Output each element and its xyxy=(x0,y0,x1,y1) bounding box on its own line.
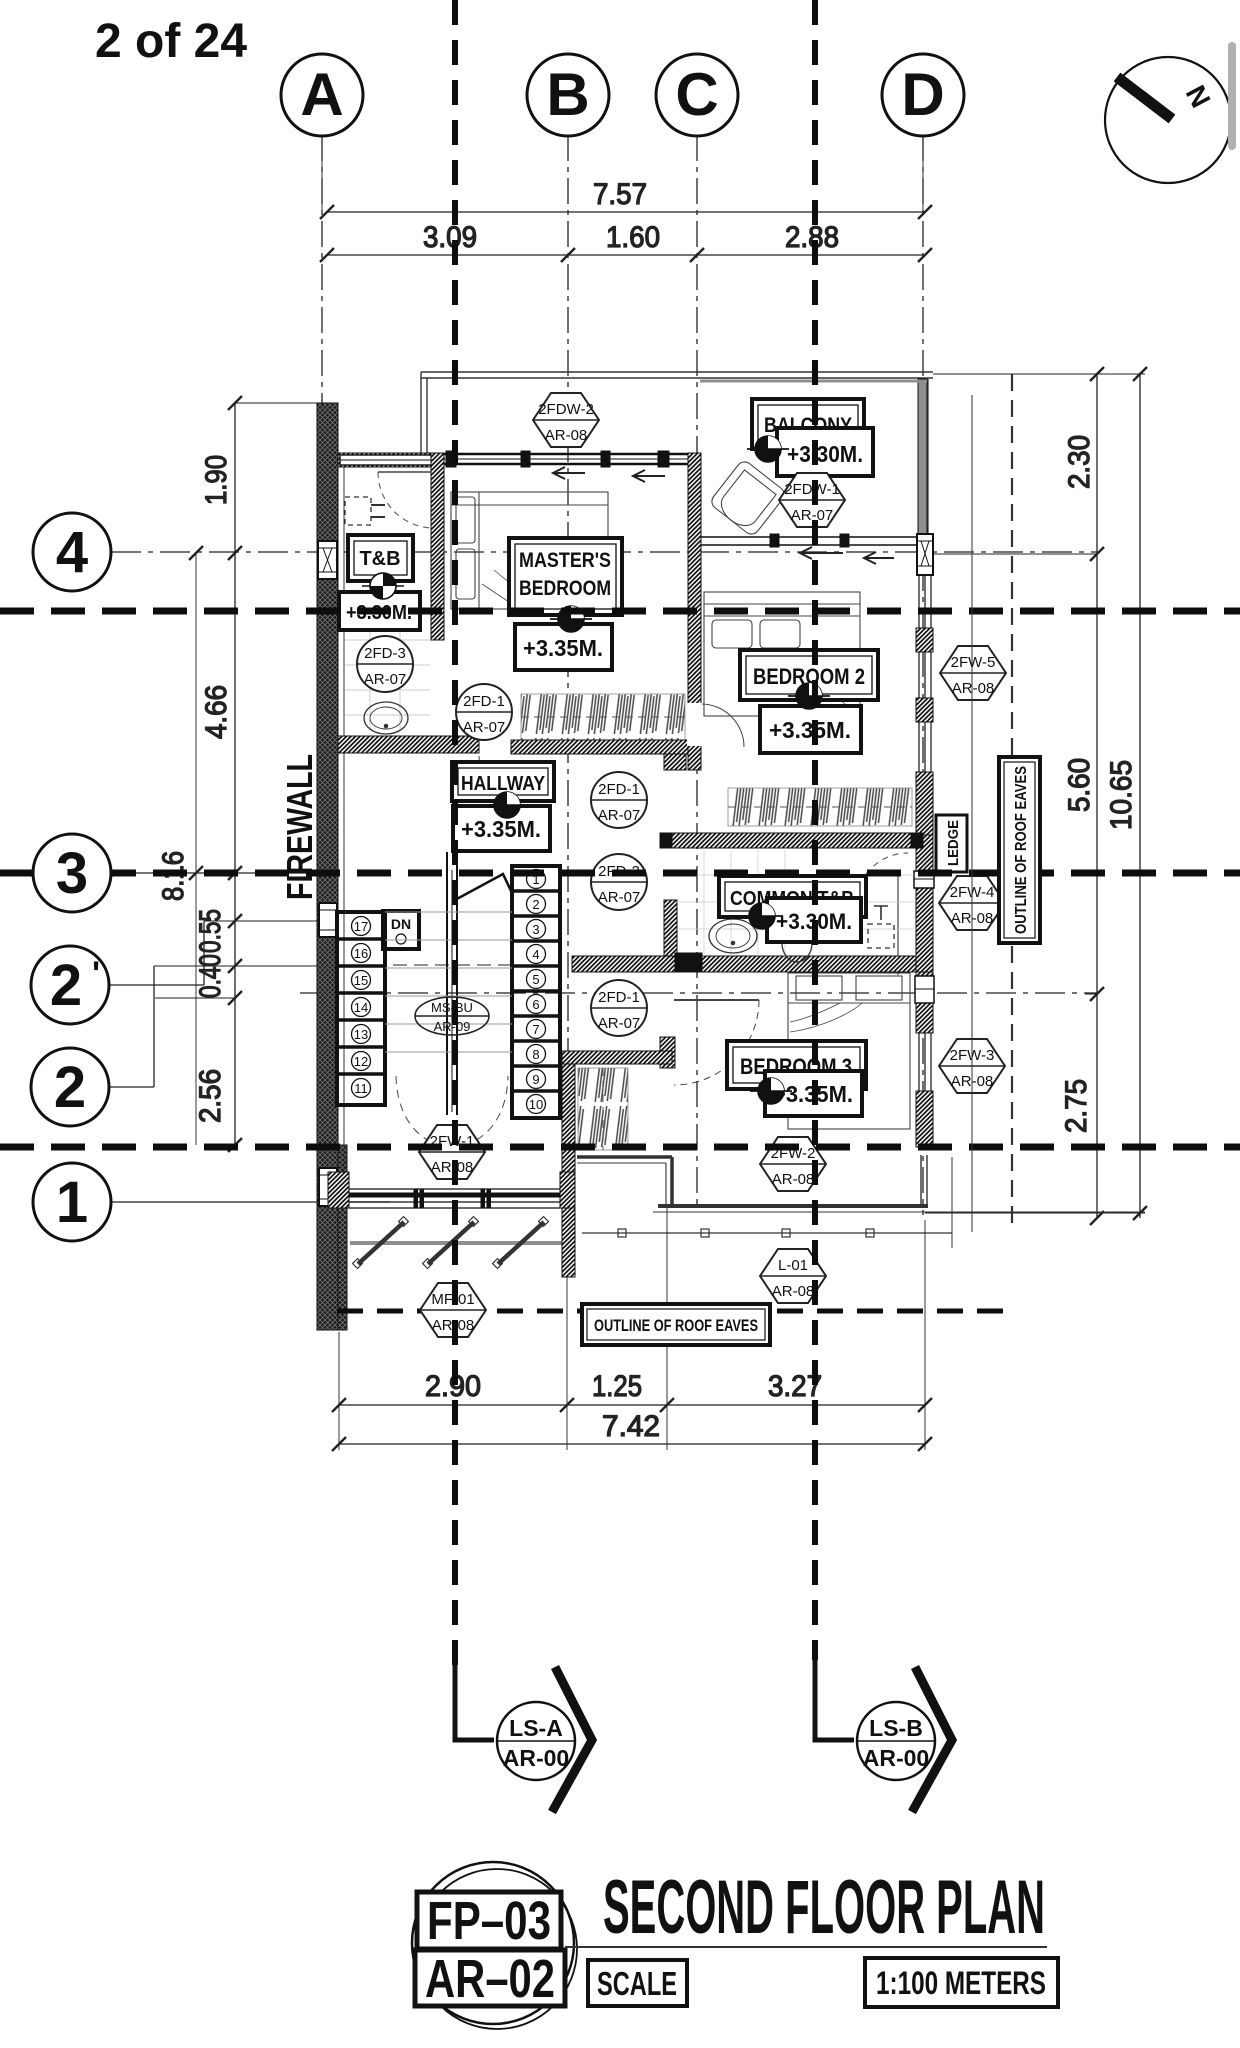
hexagon tag 2FW-2 xyxy=(760,1137,826,1191)
firewall jamb block 1 xyxy=(318,541,337,579)
svg-text:16: 16 xyxy=(354,946,368,961)
svg-text:OUTLINE OF ROOF EAVES: OUTLINE OF ROOF EAVES xyxy=(1013,766,1030,934)
roof eaves outline left xyxy=(421,372,427,455)
svg-text:2FD-1: 2FD-1 xyxy=(463,693,505,710)
stair stringer xyxy=(447,852,457,1115)
svg-text:AR-08: AR-08 xyxy=(952,680,995,697)
svg-text:15: 15 xyxy=(354,973,368,988)
roof eaves outline top xyxy=(421,372,933,378)
section marker LS-A xyxy=(455,1665,592,1812)
svg-text:AR-00: AR-00 xyxy=(503,1745,569,1771)
firewall text xyxy=(279,754,320,900)
tb label box xyxy=(348,535,413,581)
svg-text:MASTER'S: MASTER'S xyxy=(519,549,611,572)
scale box xyxy=(588,1960,687,2006)
svg-text:AR-07: AR-07 xyxy=(364,671,407,688)
tb sink xyxy=(364,702,408,734)
svg-text:2.56: 2.56 xyxy=(194,1069,227,1123)
stair landing lines xyxy=(385,912,512,1052)
svg-text:13: 13 xyxy=(354,1027,368,1042)
svg-text:AR–02: AR–02 xyxy=(425,1949,555,2009)
circle tag 2FD-1 a xyxy=(456,684,512,740)
ellipse tag MS-BU xyxy=(415,997,489,1035)
title sketch circles xyxy=(412,1862,577,2029)
grid row 3 leader xyxy=(111,872,320,874)
bedroom2 bed xyxy=(704,592,860,716)
closet bottom wall xyxy=(562,1051,672,1064)
svg-text:AR-00: AR-00 xyxy=(863,1745,929,1771)
hallway label box xyxy=(452,762,554,801)
common tb door arc xyxy=(856,853,908,975)
level marker balcony xyxy=(747,436,789,462)
svg-text:FP–03: FP–03 xyxy=(427,1891,551,1951)
svg-text:10: 10 xyxy=(529,1097,543,1112)
level marker bedroom2 xyxy=(788,683,830,709)
tb bottom wall xyxy=(338,736,479,753)
svg-text:5: 5 xyxy=(532,972,539,987)
svg-text:2: 2 xyxy=(532,897,539,912)
level marker master xyxy=(550,606,592,632)
common tb shower xyxy=(868,906,894,948)
svg-text:4: 4 xyxy=(532,947,539,962)
bottom dim line 7.42 xyxy=(332,1437,932,1451)
svg-text:A: A xyxy=(300,61,343,128)
svg-text:6: 6 xyxy=(532,997,539,1012)
svg-text:0.55: 0.55 xyxy=(194,909,227,953)
stair DN box xyxy=(383,911,419,949)
svg-text:2.75: 2.75 xyxy=(1060,1079,1093,1133)
svg-text:17: 17 xyxy=(354,919,368,934)
front window wall xyxy=(328,1172,575,1208)
svg-text:2FD-1: 2FD-1 xyxy=(598,781,640,798)
section marker LS-B xyxy=(815,1660,952,1812)
svg-text:C: C xyxy=(675,61,718,128)
property line y1150 xyxy=(0,1144,1240,1151)
svg-text:1.90: 1.90 xyxy=(200,455,233,505)
porch diagonal hatch 2 xyxy=(423,1217,479,1269)
firewall jamb block 2 xyxy=(319,903,337,937)
svg-text:AR-07: AR-07 xyxy=(598,1015,641,1032)
svg-text:+3.30M.: +3.30M. xyxy=(787,441,863,467)
circle tag 2FD-1 c xyxy=(591,980,647,1036)
stair left flight treads 17-11 xyxy=(337,912,385,1105)
level marker hallway xyxy=(486,792,528,818)
level marker hallway xyxy=(486,792,528,818)
master bed xyxy=(451,492,608,609)
svg-text:2FD-1: 2FD-1 xyxy=(598,989,640,1006)
svg-text:7.42: 7.42 xyxy=(602,1410,660,1443)
svg-text:1:100 METERS: 1:100 METERS xyxy=(876,1965,1046,2001)
hallway level box xyxy=(453,806,550,851)
svg-text:DN: DN xyxy=(391,916,411,932)
porch diagonal hatch 3 xyxy=(493,1217,549,1269)
svg-text:+3.35M.: +3.35M. xyxy=(769,717,851,743)
hexagon tag 2FDW-1 xyxy=(779,473,845,527)
grid row 4 line xyxy=(111,551,1097,553)
section line LS-B vertical dashed xyxy=(812,0,818,1660)
svg-text:LEDGE: LEDGE xyxy=(945,820,962,866)
svg-text:8: 8 xyxy=(532,1047,539,1062)
master level box xyxy=(515,624,612,670)
svg-text:LS-A: LS-A xyxy=(509,1715,563,1741)
svg-text:B: B xyxy=(546,61,589,128)
bedroom2 right window wall xyxy=(916,575,933,772)
grid line B vertical xyxy=(567,135,569,1195)
hexagon tag 2FDW-2 xyxy=(533,393,599,447)
master closet hatch xyxy=(521,694,685,740)
common tb left wall xyxy=(664,900,677,972)
svg-text:AR-07: AR-07 xyxy=(598,889,641,906)
svg-text:4.66: 4.66 xyxy=(200,685,233,739)
svg-text:AR-08: AR-08 xyxy=(772,1283,815,1300)
common tb tiles xyxy=(677,848,914,956)
master door arc xyxy=(479,756,511,788)
firewall jamb block 3 xyxy=(319,1168,337,1206)
right wall ledge solid xyxy=(916,772,933,862)
grid line D vertical xyxy=(922,135,924,1215)
balcony bottom wall xyxy=(701,534,933,547)
tb level box xyxy=(339,592,420,630)
circle tag 2FD-2 xyxy=(591,854,647,910)
svg-text:7.57: 7.57 xyxy=(593,178,647,211)
stair up arrow xyxy=(455,874,512,900)
window arrow 3 xyxy=(800,547,843,559)
roof eaves outline right solid xyxy=(971,395,973,1232)
grid bubble 2p xyxy=(31,946,109,1024)
outline of roof eaves bottom box xyxy=(582,1304,770,1345)
window arrow 4 xyxy=(864,552,894,564)
svg-text:FIREWALL: FIREWALL xyxy=(279,754,320,900)
grid bubble 4 xyxy=(33,513,111,591)
hexagon tag MF-01 xyxy=(420,1283,486,1337)
dim line 7.57 xyxy=(320,137,932,219)
hallway top wall xyxy=(511,740,700,770)
svg-text:2 of 24: 2 of 24 xyxy=(95,15,247,68)
svg-text:10.65: 10.65 xyxy=(1105,760,1138,830)
section line LS-A vertical dashed xyxy=(452,0,458,1665)
grid row 2p line xyxy=(300,992,1097,994)
svg-text:1.25: 1.25 xyxy=(592,1370,642,1403)
hexagon tag 2FW-3 xyxy=(939,1039,1005,1093)
svg-text:T&B: T&B xyxy=(359,548,400,570)
svg-text:+3.35M.: +3.35M. xyxy=(461,816,541,842)
svg-text:2.30: 2.30 xyxy=(1063,435,1096,489)
level marker bedroom3 xyxy=(750,1078,792,1104)
svg-text:0.40: 0.40 xyxy=(194,954,227,998)
svg-text:SECOND FLOOR PLAN: SECOND FLOOR PLAN xyxy=(603,1865,1045,1950)
level marker balcony xyxy=(747,436,789,462)
bedroom3 label box xyxy=(727,1041,866,1089)
right wall corner block row4 xyxy=(917,534,933,575)
bedroom3 level box xyxy=(765,1071,862,1116)
svg-text:AR-08: AR-08 xyxy=(772,1171,815,1188)
north symbol xyxy=(1105,57,1231,183)
stair void dashed arc xyxy=(396,1076,508,1147)
grid bubble D xyxy=(882,54,964,136)
svg-text:AR-08: AR-08 xyxy=(545,427,588,444)
svg-text:': ' xyxy=(92,955,100,993)
dim line 3.09 1.60 2.88 xyxy=(320,248,932,262)
svg-text:OUTLINE OF ROOF EAVES: OUTLINE OF ROOF EAVES xyxy=(594,1316,758,1335)
bedroom3 door arc dashed xyxy=(674,1000,759,1085)
grid bubble B xyxy=(527,54,609,136)
dashed line y1311 xyxy=(337,1309,1012,1314)
tb cistern dashed xyxy=(345,497,385,525)
svg-text:LS-B: LS-B xyxy=(869,1715,923,1741)
svg-text:12: 12 xyxy=(354,1054,368,1069)
grid bubble 3 xyxy=(33,834,111,912)
hexagon tag 2FW-1 xyxy=(419,1125,485,1179)
hexagon tag 2FW-4 xyxy=(939,876,1005,930)
level marker tb xyxy=(362,573,404,599)
tb door arc xyxy=(378,472,432,528)
bedroom3 right window wall xyxy=(915,972,934,1147)
tb top wall with window xyxy=(338,453,444,467)
grid bubble 1 xyxy=(33,1163,111,1241)
stair right flight treads 1-10 xyxy=(512,866,560,1118)
level marker bedroom3 xyxy=(750,1078,792,1104)
bedroom2 door arc xyxy=(701,704,744,747)
left dim chain line xyxy=(154,396,560,1152)
window arrow 1 xyxy=(553,467,585,479)
sheet no box FP-03 xyxy=(417,1891,561,1951)
circle tag 2FD-1 b xyxy=(591,772,647,828)
grid line C vertical xyxy=(696,135,698,1210)
common tb bottom wall xyxy=(572,953,916,972)
common tb right wall xyxy=(914,835,934,972)
scale value box xyxy=(865,1958,1058,2007)
svg-text:5.60: 5.60 xyxy=(1063,758,1096,812)
tb master partition wall xyxy=(431,453,444,640)
svg-text:AR-07: AR-07 xyxy=(463,719,506,736)
balcony right rail gray xyxy=(700,379,928,534)
svg-text:2FW-5: 2FW-5 xyxy=(951,654,996,671)
svg-text:14: 14 xyxy=(354,1000,368,1015)
svg-text:BEDROOM: BEDROOM xyxy=(519,577,611,600)
right dim chain lines xyxy=(925,367,1147,1225)
page number text xyxy=(95,15,247,68)
master top window band xyxy=(444,451,688,467)
porch diagonal hatch 1 xyxy=(353,1217,409,1269)
common tb level box xyxy=(767,898,861,942)
bedroom3 closet hatch xyxy=(578,1068,628,1150)
common tb toilet xyxy=(782,912,812,962)
common tb label box xyxy=(719,876,866,917)
common tb sink xyxy=(709,919,757,953)
bedroom3 left wall piece xyxy=(660,1037,675,1068)
svg-text:1.60: 1.60 xyxy=(606,221,660,254)
svg-text:2: 2 xyxy=(50,953,82,1018)
porch gray line xyxy=(350,1241,562,1245)
svg-text:3.09: 3.09 xyxy=(423,221,477,254)
level marker master xyxy=(550,606,592,632)
firewall xyxy=(317,403,347,1330)
svg-text:AR-07: AR-07 xyxy=(598,807,641,824)
property line y873 xyxy=(0,870,1240,877)
svg-text:2: 2 xyxy=(54,1055,86,1120)
svg-text:+3.35M.: +3.35M. xyxy=(523,635,603,661)
grid bubble C xyxy=(656,54,738,136)
svg-text:SCALE: SCALE xyxy=(597,1965,677,2002)
svg-text:11: 11 xyxy=(354,1081,368,1096)
master right wall xyxy=(687,453,702,770)
bedroom3 bed xyxy=(788,973,910,1129)
outline of roof eaves right box xyxy=(999,757,1040,943)
svg-text:3: 3 xyxy=(532,922,539,937)
svg-text:2FDW-2: 2FDW-2 xyxy=(538,401,594,418)
grid row 2p leader xyxy=(109,921,204,985)
circle tag 2FD-3 xyxy=(357,636,413,692)
ledge label box xyxy=(936,815,967,872)
eaves line over tags xyxy=(971,395,973,1232)
balcony level box xyxy=(777,428,873,476)
common tb top wall xyxy=(660,833,923,848)
grid bubble 2 xyxy=(31,1048,109,1126)
bedroom2 label box xyxy=(740,650,878,700)
svg-text:3: 3 xyxy=(56,841,88,906)
bottom dim line 2.90 1.25 3.27 xyxy=(332,1206,932,1450)
scrollbar xyxy=(1228,42,1236,150)
grid row 1 leader xyxy=(111,1201,390,1203)
sheet no box AR-02 xyxy=(415,1949,565,2009)
level marker common tb xyxy=(741,903,783,929)
level marker common tb xyxy=(741,903,783,929)
svg-text:D: D xyxy=(901,61,944,128)
level marker bedroom2 xyxy=(788,683,830,709)
svg-text:1: 1 xyxy=(56,1170,88,1235)
grid row 2 leader xyxy=(109,966,154,1087)
eaves bottom outer line xyxy=(582,1229,952,1237)
roof eaves outline right dashed xyxy=(1011,374,1013,1232)
window arrow 2 xyxy=(633,470,665,482)
svg-text:2FD-3: 2FD-3 xyxy=(364,645,406,662)
svg-text:9: 9 xyxy=(532,1072,539,1087)
tb grid tiles xyxy=(345,632,430,730)
title underline xyxy=(565,1946,1047,1948)
master bedroom label box xyxy=(509,538,622,615)
bedroom2 closet hatch xyxy=(728,788,912,826)
svg-text:4: 4 xyxy=(56,520,88,585)
svg-text:L-01: L-01 xyxy=(778,1257,808,1274)
balcony armchair xyxy=(709,459,788,538)
hexagon tag L-01 xyxy=(760,1249,826,1303)
property line y611 xyxy=(0,608,1240,615)
main title text xyxy=(603,1865,1045,1950)
bedroom2 level box xyxy=(760,706,861,753)
grid bubble A xyxy=(281,54,363,136)
eaves below bedroom3 xyxy=(577,1155,1145,1248)
balcony label box xyxy=(752,399,864,449)
svg-text:7: 7 xyxy=(532,1022,539,1037)
hexagon tag 2FW-5 xyxy=(940,646,1006,700)
grid line A vertical xyxy=(321,135,323,403)
stair right wall xyxy=(562,1051,575,1277)
svg-text:HALLWAY: HALLWAY xyxy=(461,773,546,795)
